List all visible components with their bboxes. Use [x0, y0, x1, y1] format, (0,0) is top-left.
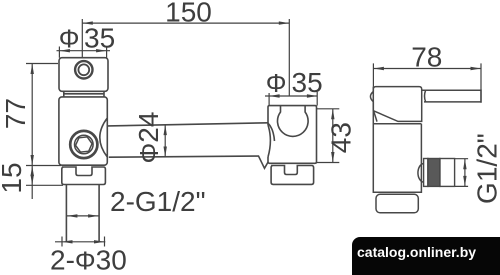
bracket flange	[62, 167, 106, 185]
arrow 78 left	[373, 67, 384, 70]
svg-text:77: 77	[0, 98, 31, 129]
arrow phi35H left	[269, 94, 280, 97]
junction fillet arc	[100, 118, 108, 157]
holder nut	[271, 166, 314, 185]
pipe bottom line	[109, 156, 268, 168]
arrow G12i left	[67, 214, 78, 217]
arrow 78 right	[471, 67, 482, 70]
watermark catalog.onliner.by	[352, 237, 500, 275]
dim phi35 left line	[57, 50, 111, 52]
dim 77 line	[31, 64, 33, 166]
arrow 150 right	[279, 21, 290, 24]
arrow G12r bottom	[463, 176, 466, 187]
bracket threaded pipe	[66, 185, 99, 243]
svg-text:G1/2": G1/2"	[471, 133, 500, 204]
arrow phi30 right	[94, 240, 105, 243]
svg-text:35: 35	[292, 67, 323, 98]
dim 2-G1/2 inner line	[67, 215, 99, 217]
dim phi35 holder extensions	[269, 92, 317, 106]
dim 78 extensions	[373, 63, 481, 102]
svg-text:35: 35	[84, 22, 115, 53]
arrow 43 bottom	[331, 152, 334, 163]
svg-text:Φ24: Φ24	[133, 112, 164, 164]
svg-text:150: 150	[165, 0, 212, 28]
dim 15 bottom extension	[26, 184, 63, 186]
handle lever	[422, 90, 481, 102]
dim G1/2 line	[464, 159, 466, 187]
svg-text:Φ: Φ	[59, 23, 80, 53]
shower holder body	[268, 106, 317, 164]
outlet collar	[440, 159, 455, 187]
dim 43 line	[332, 109, 334, 163]
screw C1 circles	[70, 131, 97, 158]
wall bracket top box	[59, 58, 108, 92]
arrow phi35H right	[307, 94, 318, 97]
svg-text:2-Φ30: 2-Φ30	[50, 245, 127, 275]
outlet thread block	[428, 159, 440, 187]
arrow 77 top	[31, 64, 34, 75]
dim 78 line	[373, 68, 481, 70]
arrow G12i right	[88, 214, 99, 217]
outlet ring	[424, 159, 428, 187]
dim 77/15 shared extension	[26, 165, 61, 167]
dim phi35 holder line	[265, 95, 317, 97]
arrow phi30 left	[62, 240, 73, 243]
svg-text:2-G1/2": 2-G1/2"	[110, 186, 206, 217]
dim 43 extensions	[317, 109, 340, 163]
bracket waist	[64, 91, 104, 97]
handle pivot bulge	[370, 92, 373, 102]
arrow phi35L left	[59, 49, 70, 52]
holder left fillet	[268, 125, 270, 157]
svg-text:Φ: Φ	[266, 68, 287, 98]
svg-text:15: 15	[0, 162, 27, 193]
svg-text:78: 78	[411, 42, 442, 73]
holder pipe socket curve	[268, 123, 275, 141]
arrow 15 bottom	[31, 175, 34, 186]
screw hole top circle	[75, 61, 92, 78]
screw hexagon	[75, 136, 93, 152]
wall bracket lower box	[59, 97, 107, 165]
arrow 43 top	[331, 109, 334, 120]
lever joint arc	[425, 90, 426, 102]
dim 15 line	[31, 166, 33, 200]
arrow phi24 top	[164, 125, 167, 136]
dim phi35 left extensions	[59, 47, 106, 58]
faucet base	[376, 194, 418, 213]
dim G1/2 extensions	[455, 159, 468, 187]
dim 150 line	[82, 22, 289, 24]
outlet fillet arc	[418, 164, 424, 183]
faucet body	[373, 87, 421, 193]
arrow 15 top	[31, 166, 34, 177]
dim 150 left extension	[81, 19, 83, 58]
dim 150 right extension	[288, 19, 290, 96]
arrow phi35L right	[96, 49, 107, 52]
svg-text:43: 43	[326, 122, 357, 153]
holder U slot	[277, 106, 308, 137]
arrow phi24 bottom	[164, 147, 167, 158]
faucet handle cap	[373, 87, 421, 122]
arrow 77 bottom	[31, 155, 34, 166]
handle skirt inner line	[374, 111, 377, 122]
pipe top line	[108, 123, 268, 126]
dim 2-phi30 extension stubs	[62, 237, 105, 247]
dim 77 top extension	[26, 63, 58, 65]
dim phi24 line	[164, 125, 166, 157]
arrow G12r top	[463, 159, 466, 170]
dim 2-phi30 line	[55, 241, 105, 243]
arrow 150 left	[82, 21, 93, 24]
